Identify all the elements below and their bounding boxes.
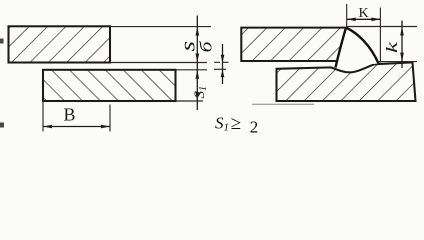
lower plate (right figure): hatched body with penetration dip [277,62,416,101]
arrow b upper (down, above gap) [221,55,225,63]
dimension line k (vertical) [401,21,403,69]
arrow B left [43,125,52,129]
arrow k top (up) [400,27,404,36]
lower plate (right figure): outline [277,62,416,101]
extension line B right (below upper plate right edge) [109,105,111,132]
arrow b lower (up, below gap) [221,69,225,77]
weld bead body (white) [336,28,379,68]
svg-text:≥: ≥ [231,113,241,134]
svg-text:2: 2 [250,118,258,137]
dimension line B [43,126,110,128]
extension line K right (down to weld toe) [379,8,381,63]
weld bead face (thick convex) [346,28,379,64]
arrow k bottom (down) [400,53,404,62]
arrow B right [101,125,110,129]
svg-text:k: k [384,41,401,53]
arrow K right [371,18,380,22]
extension line B left (below lower plate left edge) [42,101,44,132]
upper plate original edge (thin, under weld) [345,28,347,66]
svg-text:K: K [359,6,369,21]
dimension line K [347,18,381,20]
dimension line b (gap, vertical short) [222,44,224,84]
extension line: weld toe level to k-dimension [378,61,417,63]
lower plate (left figure): hatched body [43,70,176,101]
extension line K left (up from weld apex) [346,4,348,28]
arrow S1 top (up) [196,70,200,79]
arrow s top (up) [196,27,200,36]
svg-text:б: б [197,41,216,53]
paper edge tick upper left [0,39,4,44]
upper plate (right figure): outline [241,28,346,61]
extension line: lower plate top edge to S1-dimension [176,69,207,71]
arrow K left [347,18,356,22]
dimension line s / S1 (shared vertical) [196,16,198,111]
svg-text:B: B [64,105,76,125]
extension line: upper plate top edge to s-dimension [110,26,211,28]
paper edge tick lower left [0,123,4,128]
extension dash for gap b (upper) [214,61,231,63]
extension dash for gap b (lower) [214,68,226,70]
extension line: top edge level to k-dimension [346,26,417,28]
upper plate (left figure): outline [9,26,111,62]
arrow s bottom (down) [196,54,200,63]
weld bead left boundary (thick) [336,28,347,68]
extension line: upper plate bottom edge to s-dimension [110,62,207,64]
extension line: lower plate bottom edge to S1-dimension [176,100,203,102]
stray scan line under right plate [252,103,314,105]
upper plate (left figure): hatched body [9,26,111,62]
lower plate (left figure): outline [43,70,176,101]
upper plate (right figure): hatched body [241,28,346,61]
arrow S1 bottom (down) [196,92,200,101]
